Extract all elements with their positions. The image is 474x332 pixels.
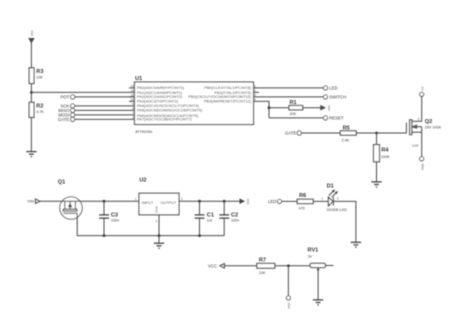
ground (below D1)	[351, 242, 361, 247]
wire R5 to Q2 gate	[356, 132, 406, 134]
transistor Q1 (P-MOSFET in envelope)	[58, 180, 82, 220]
svg-text:VCC: VCC	[30, 30, 34, 36]
svg-text:R2: R2	[36, 104, 43, 110]
svg-text:U1: U1	[135, 76, 142, 82]
connector POT (bottom)	[286, 296, 291, 309]
diode D1 LED	[321, 184, 347, 212]
svg-text:R1: R1	[290, 100, 297, 106]
wire U1 PB0 to LED connector	[254, 87, 324, 89]
U1 left pin stubs + numbers	[129, 84, 135, 120]
svg-text:Q2: Q2	[425, 119, 432, 125]
wire GATE to R5	[301, 132, 340, 134]
regulator U2	[135, 177, 183, 222]
resistor R5	[340, 125, 356, 142]
svg-text:GATE: GATE	[285, 131, 297, 136]
connector VS (drain)	[420, 87, 425, 97]
svg-text:ATTINY84: ATTINY84	[135, 130, 152, 134]
wire MISO to U1 PA5	[75, 109, 135, 111]
wire R3 to junction to R2	[30, 84, 32, 103]
ground (below R4)	[371, 182, 381, 187]
wire junction down to POT connector	[287, 266, 289, 296]
wire VCC to R3	[30, 43, 32, 68]
svg-text:10K: 10K	[259, 271, 266, 275]
wire MOSI to U1 PA6	[75, 114, 135, 116]
node U2 gnd on rail	[158, 234, 161, 237]
wire U2 output to VCC arrow	[179, 200, 240, 202]
wire SCK to U1 PA4	[75, 105, 135, 107]
wire R4 to ground	[376, 162, 378, 182]
connector POT	[60, 94, 74, 99]
svg-text:GND: GND	[420, 164, 424, 170]
wire GATE to U1 PA7	[75, 118, 135, 120]
svg-text:10: 10	[131, 98, 135, 102]
power VCC (reset pullup)	[321, 105, 331, 111]
svg-text:13: 13	[131, 84, 135, 88]
svg-text:GND: GND	[155, 206, 159, 212]
resistor R7	[257, 258, 275, 275]
wire VCC arrow to R7	[224, 265, 257, 267]
resistor R3	[29, 68, 43, 84]
connector MISO	[58, 108, 74, 113]
svg-text:U2: U2	[139, 177, 146, 183]
connector MOSI	[58, 112, 74, 117]
svg-text:100K: 100K	[381, 155, 390, 159]
svg-text:10K: 10K	[290, 112, 297, 116]
svg-text:25V 100A: 25V 100A	[425, 126, 442, 130]
capacitor C3	[99, 201, 119, 235]
svg-text:LED: LED	[268, 199, 276, 204]
connector LED (bottom section)	[268, 199, 282, 204]
resistor R6	[297, 193, 313, 210]
node C3 bottom	[103, 234, 106, 237]
svg-text:100n: 100n	[111, 218, 119, 222]
svg-text:R6: R6	[299, 193, 306, 199]
svg-text:VCC: VCC	[327, 105, 331, 111]
IC U1 ATTINY84	[135, 76, 254, 134]
node C3 top	[103, 200, 106, 203]
svg-text:R7: R7	[259, 258, 266, 264]
node C1 top	[198, 200, 201, 203]
svg-text:PB3(dW/RESET/PCINT11): PB3(dW/RESET/PCINT11)	[204, 99, 252, 104]
svg-text:1(2(5: 1(2(5	[412, 144, 419, 148]
wire Q2 drain up to VS pin	[421, 96, 423, 121]
node R7/RV1 junction	[287, 264, 290, 267]
svg-text:INPUT: INPUT	[142, 200, 154, 205]
resistor R1	[289, 100, 303, 116]
transistor Q2 (N-MOSFET)	[406, 117, 441, 148]
wire U2 gnd pin down	[158, 215, 160, 243]
wire POT to U1 PA2	[75, 96, 135, 98]
svg-text:VIN: VIN	[27, 199, 34, 204]
wire R1 to VCC arrow	[303, 107, 321, 109]
connector SCK	[60, 103, 74, 108]
svg-text:SWITCH: SWITCH	[329, 94, 346, 99]
node reset junction	[268, 106, 271, 109]
svg-text:R5: R5	[343, 125, 350, 131]
capacitor C2	[219, 201, 239, 235]
svg-text:10K: 10K	[36, 76, 43, 80]
wire R7 to RV1	[275, 265, 310, 267]
U1 right pin names	[188, 85, 251, 104]
wire Q1 gate down to ground rail	[77, 213, 224, 235]
node divider junction	[30, 91, 33, 94]
connector LED (right of U1)	[323, 85, 337, 90]
svg-text:4.7K: 4.7K	[36, 110, 44, 114]
svg-text:RV1: RV1	[308, 248, 319, 254]
U1 right pin stubs + numbers	[254, 84, 260, 102]
wire junction to R1	[269, 107, 289, 109]
node C2 top	[223, 200, 226, 203]
svg-text:GATE: GATE	[58, 117, 70, 122]
svg-text:VCC: VCC	[208, 263, 217, 268]
wire RV1 wiper to ground	[317, 270, 319, 300]
ground (below R2)	[26, 152, 36, 157]
wire divider junction to U1 PA1	[31, 91, 134, 93]
capacitor C1	[195, 201, 214, 235]
svg-text:RESET: RESET	[329, 115, 344, 120]
svg-text:D1: D1	[327, 184, 334, 190]
svg-text:12: 12	[131, 89, 135, 93]
wire junction to R4	[376, 133, 378, 145]
power VCC (after C2)	[240, 198, 250, 204]
svg-text:POT: POT	[287, 302, 291, 308]
svg-text:2.4K: 2.4K	[342, 139, 350, 143]
wire U1 PB3 bend down to reset net	[254, 101, 270, 118]
node gate junction	[375, 132, 378, 135]
node C1 bottom	[198, 234, 201, 237]
input VIN arrow	[27, 199, 40, 204]
svg-text:PA7(ADC7/OC0B/ICP/PCINT7): PA7(ADC7/OC0B/ICP/PCINT7)	[137, 117, 193, 122]
connector SWITCH	[323, 94, 346, 99]
svg-text:VCC: VCC	[246, 198, 250, 204]
ground (below RV1 wiper)	[313, 300, 323, 305]
svg-text:DIODE-LED: DIODE-LED	[327, 208, 347, 212]
potentiometer RV1	[308, 248, 326, 271]
resistor R2	[29, 102, 44, 117]
ground (below U2)	[154, 243, 164, 248]
wire Q2 source down to GND pin	[421, 132, 423, 157]
wire LED to R6	[282, 200, 298, 202]
svg-text:LED: LED	[329, 85, 337, 90]
wire R6 to D1	[313, 200, 328, 202]
connector GATE (right section)	[285, 131, 301, 136]
wire D1 cathode to ground	[333, 201, 356, 242]
svg-text:VS: VS	[420, 87, 424, 91]
svg-text:R4: R4	[381, 147, 389, 153]
svg-text:100n: 100n	[231, 218, 239, 222]
svg-text:OUTPUT: OUTPUT	[160, 200, 177, 205]
resistor R4	[374, 145, 391, 162]
svg-text:PA5(ADC5/DO/MISO/OC1B/PCINT5): PA5(ADC5/DO/MISO/OC1B/PCINT5)	[137, 108, 203, 113]
wire junction down to RESET connector	[269, 117, 323, 119]
power VCC (R7 row, left arrow)	[208, 263, 225, 268]
svg-text:POT: POT	[60, 94, 69, 99]
connector RESET	[323, 115, 344, 120]
connector GATE (left)	[58, 117, 75, 122]
svg-text:Q1: Q1	[58, 180, 65, 186]
connector GND (source)	[420, 157, 425, 170]
power VCC (top left)	[29, 30, 34, 43]
Q1 internals	[63, 201, 77, 213]
wire RV1 right terminal	[326, 265, 334, 267]
U1 left pin names	[137, 85, 203, 122]
wire R2 to ground	[30, 117, 32, 151]
wire U1 PB2 to SWITCH connector	[254, 96, 324, 98]
svg-text:470: 470	[299, 207, 305, 211]
wire VIN rail through Q1 to U2 input	[40, 200, 139, 202]
svg-text:R3: R3	[36, 69, 43, 75]
svg-text:1k: 1k	[308, 255, 312, 259]
